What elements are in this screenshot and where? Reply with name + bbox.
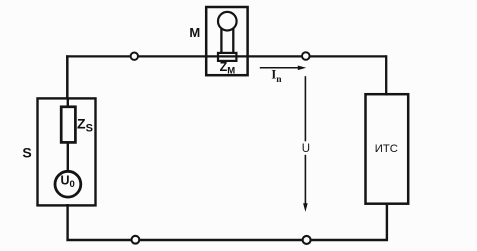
svg-text:S: S: [22, 145, 31, 161]
svg-text:ИТС: ИТС: [375, 143, 398, 155]
wire S box top to Zs: [67, 98, 69, 108]
voltage arrow U lower segment: [304, 155, 306, 206]
wire S box bottom to bottom wire: [66, 204, 68, 241]
wire right vertical (corner to ITS box): [385, 55, 387, 95]
wire top horizontal: [66, 55, 386, 57]
impedance Zs rectangle: [61, 107, 75, 143]
node bottom-left (open circle): [132, 236, 140, 244]
voltage arrow U upper segment: [304, 76, 306, 141]
wire bottom horizontal: [66, 239, 388, 242]
meter clamp rectangle: [218, 53, 236, 61]
current arrow In head: [298, 66, 306, 71]
node top-right (open circle): [302, 52, 310, 60]
source U0 circle: [55, 171, 81, 197]
meter neck left line: [220, 27, 222, 54]
wire ITS box bottom to bottom wire: [386, 203, 388, 241]
wire left vertical (corner to S box): [66, 55, 69, 99]
svg-text:U: U: [302, 143, 310, 155]
meter M outer box: [206, 7, 247, 75]
wire Zs to U0: [67, 142, 69, 171]
node top-left (open circle): [131, 53, 138, 60]
load ITS box: [366, 94, 409, 204]
voltage arrow U head: [303, 203, 308, 212]
node bottom-right (open circle): [303, 236, 311, 244]
svg-text:M: M: [189, 25, 200, 40]
box S (source outline): [38, 98, 96, 205]
current arrow In line: [260, 67, 300, 69]
meter dial circle: [218, 12, 237, 31]
meter neck right line: [232, 27, 234, 54]
